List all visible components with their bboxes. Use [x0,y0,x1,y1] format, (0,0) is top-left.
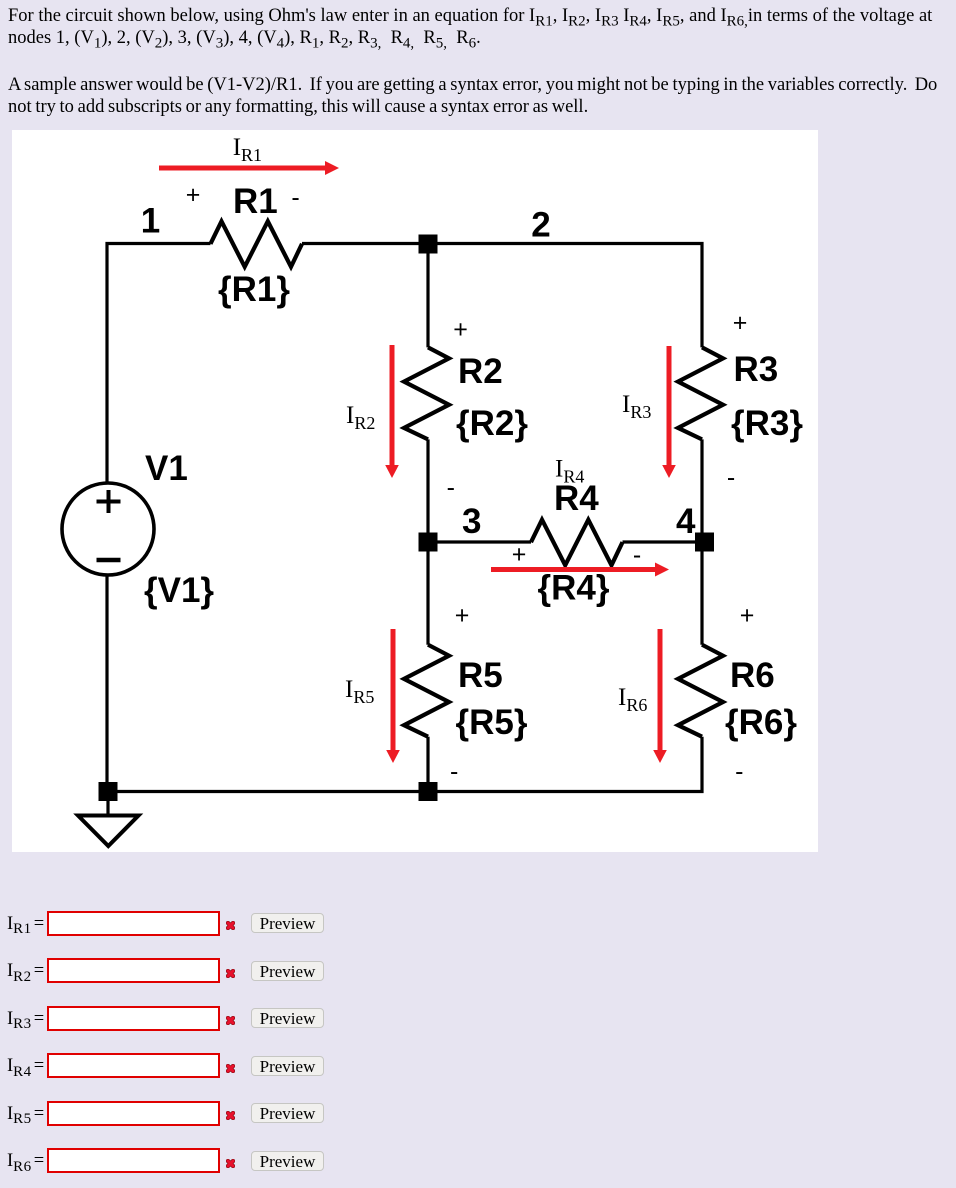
IR6 current arrow [658,629,663,753]
answer row IR5 [0,0,956,2]
wire top: R1 right side to node2 corner and down right rail [302,244,702,348]
circuit image panel [12,130,818,852]
svg-text:{R4}: {R4} [538,569,610,608]
V1 plus sign [97,490,121,513]
IR2 current arrow [390,345,395,468]
wire node3 to R5 top [426,542,429,645]
svg-text:+: + [733,309,748,337]
wire R5 bottom to bottom rail [426,737,429,792]
voltage source V1 circle [62,483,154,575]
svg-text:+: + [455,602,470,630]
svg-text:{R1}: {R1} [218,270,290,309]
wire node3 to R4 left [428,540,531,543]
svg-text:-: - [291,184,299,212]
svg-text:IR5: IR5 [345,676,374,707]
answer row IR3 [0,0,956,2]
resistor R5 [404,645,449,737]
wire R3 bottom to node4 [700,439,703,542]
svg-text:IR3: IR3 [622,391,651,422]
wire middle rail vertical (node2 to R2) [426,244,429,348]
svg-text:-: - [447,473,455,501]
svg-text:+: + [186,181,201,209]
svg-text:IR6: IR6 [618,684,647,715]
svg-text:R6: R6 [730,656,775,695]
svg-text:R5: R5 [458,656,503,695]
resistor R2 [404,347,449,439]
svg-text:+: + [453,316,468,344]
svg-text:{R5}: {R5} [456,703,528,742]
svg-text:IR1: IR1 [233,134,262,165]
svg-text:R1: R1 [233,182,278,221]
svg-text:{R6}: {R6} [725,703,797,742]
problem statement paragraph 1 [8,6,932,49]
junction ground [99,782,118,801]
svg-text:2: 2 [531,206,550,245]
svg-text:R3: R3 [734,350,779,389]
svg-text:1: 1 [141,202,160,241]
wire R2 bottom to node3 [426,439,429,542]
svg-text:4: 4 [676,502,696,541]
wire R4 right to node4 [623,540,703,543]
IR3 current arrow [667,346,672,468]
svg-text:+: + [512,540,527,568]
junction bottom mid [419,782,438,801]
svg-text:{R3}: {R3} [731,404,803,443]
svg-text:-: - [633,541,641,569]
svg-text:-: - [735,758,743,786]
wire top-left: node1 horizontal + left vertical down to V1 [107,244,211,792]
ground [78,792,139,847]
wire R6 bottom down and bottom rail to ground [108,737,702,792]
resistor R6 [678,645,723,737]
svg-text:R2: R2 [458,352,503,391]
junction node2 [419,235,438,254]
svg-text:-: - [450,758,458,786]
IR1 current arrow [159,166,328,171]
wire node4 to R6 top [700,542,703,645]
IR4 current arrow [491,567,658,572]
svg-text:3: 3 [462,502,481,541]
resistor R3 [678,347,723,439]
answer row IR4 [0,0,956,2]
resistor R1 [211,221,303,266]
svg-text:{V1}: {V1} [144,571,214,610]
svg-text:-: - [727,464,735,492]
answer row IR2 [0,0,956,2]
problem statement paragraph 2 [8,75,937,118]
svg-text:IR2: IR2 [346,402,375,433]
junction node4 [695,533,714,552]
answer row IR1 [0,0,956,2]
svg-text:+: + [740,602,755,630]
resistor R4 [531,520,623,566]
V1 minus sign [97,558,121,563]
answer row IR6 [0,0,956,2]
IR5 current arrow [391,629,396,753]
svg-text:{R2}: {R2} [456,404,528,443]
junction node3 [419,533,438,552]
svg-text:IR4: IR4 [555,456,584,487]
svg-text:V1: V1 [145,449,188,488]
